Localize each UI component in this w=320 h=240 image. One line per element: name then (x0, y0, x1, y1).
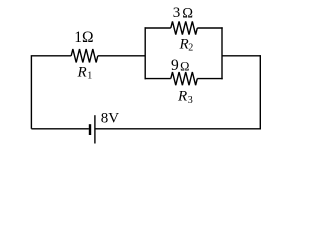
battery long plate (+) (94, 115, 96, 143)
svg-text:3: 3 (188, 95, 193, 106)
wire bottom branch left (145, 78, 171, 80)
wire bottom right segment (95, 128, 261, 130)
wire top branch left (145, 27, 171, 29)
resistor R3 (171, 72, 198, 85)
wire right rail (259, 55, 261, 129)
wire bottom left segment (31, 128, 89, 130)
svg-text:1: 1 (87, 71, 92, 82)
resistor R2 (171, 21, 198, 34)
wire bottom branch right (197, 78, 222, 80)
battery short plate (-) (89, 124, 91, 135)
wire box right vertical (221, 27, 223, 79)
svg-text:Ω: Ω (180, 60, 189, 74)
wire box to right rail (222, 55, 260, 57)
wire top-left: left rail and top wire to R1 (31, 56, 71, 129)
svg-text:R: R (77, 64, 87, 80)
svg-text:R: R (177, 89, 187, 105)
wire box left vertical (144, 27, 146, 79)
svg-text:1Ω: 1Ω (74, 29, 93, 46)
battery B1 8V (90, 115, 95, 143)
wire R1 to parallel box (98, 55, 145, 57)
wire top branch right (197, 27, 222, 29)
svg-text:2: 2 (188, 43, 193, 54)
svg-text:R: R (179, 36, 189, 52)
svg-text:8V: 8V (101, 111, 120, 127)
svg-text:3: 3 (173, 5, 181, 21)
resistor R1 (71, 49, 98, 62)
svg-text:9: 9 (171, 57, 179, 74)
svg-text:Ω: Ω (182, 6, 193, 22)
